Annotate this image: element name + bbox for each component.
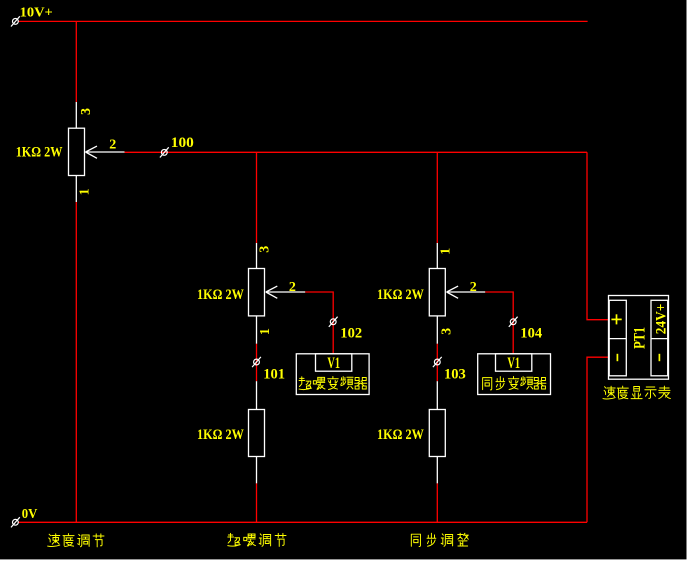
meter PT1 left terminal block — [609, 300, 626, 376]
wire RP1 pin1 down to 0V rail — [75, 202, 77, 522]
svg-text:PT1: PT1 — [632, 327, 649, 349]
svg-text:1KΩ 2W: 1KΩ 2W — [16, 145, 63, 161]
meter PT1 right terminal block — [651, 300, 668, 376]
resistor R2 — [249, 381, 265, 483]
resistor R3 — [429, 381, 445, 483]
potentiometer RP3 (sync) — [429, 243, 485, 344]
wire RP3 pin3 to node 103 to resistor R3 — [436, 344, 438, 381]
svg-text:1: 1 — [438, 248, 453, 255]
wire R2 to 0V rail — [256, 483, 258, 522]
wire 100 line down to RP2 pin 3 — [256, 152, 258, 243]
wire RP3 wiper to inverter V1 sync — [485, 292, 513, 354]
terminal right - label — [658, 354, 660, 361]
svg-text:2: 2 — [289, 280, 296, 295]
wire 100 line down right side — [587, 152, 609, 319]
U1 label 超喂变频器 — [299, 376, 367, 389]
terminal + label — [611, 314, 621, 324]
node 10V+ marker — [11, 16, 20, 26]
svg-text:V1: V1 — [507, 355, 520, 372]
svg-text:1KΩ 2W: 1KΩ 2W — [377, 287, 424, 303]
wire 100 line down to RP3 pin 1 — [436, 152, 438, 243]
potentiometer RP2 (overfeed) — [249, 243, 306, 344]
svg-text:10V+: 10V+ — [20, 6, 53, 21]
svg-text:V1: V1 — [327, 355, 340, 372]
svg-text:102: 102 — [340, 326, 362, 342]
wire from 10V+ rail down to RP1 pin 3 — [75, 21, 77, 102]
svg-text:2: 2 — [109, 137, 116, 152]
svg-text:1KΩ 2W: 1KΩ 2W — [197, 287, 244, 303]
svg-text:0V: 0V — [22, 507, 38, 522]
svg-text:24V+: 24V+ — [653, 304, 669, 335]
meter label 速度显示表 — [603, 386, 670, 399]
node 102 marker — [329, 317, 338, 327]
caption 超喂调节 — [228, 533, 286, 546]
U2 label 同步变频器 — [483, 376, 546, 389]
node 103 marker — [433, 357, 442, 367]
inverter U1 overfeed box — [296, 354, 369, 395]
svg-text:101: 101 — [263, 367, 285, 383]
svg-text:3: 3 — [440, 328, 455, 335]
node 104 marker — [509, 317, 518, 327]
inverter U2 sync box — [478, 354, 551, 395]
svg-text:3: 3 — [79, 108, 94, 115]
svg-text:100: 100 — [171, 135, 194, 151]
svg-text:2: 2 — [470, 280, 477, 295]
wire node 100 line — [125, 151, 588, 153]
wire 0V bottom rail — [19, 521, 587, 523]
caption 速度调节 — [48, 534, 104, 547]
potentiometer RP1 (speed) — [69, 102, 125, 202]
wire R3 to 0V rail — [436, 483, 438, 522]
node 0V marker — [11, 517, 20, 527]
svg-text:1: 1 — [77, 188, 92, 195]
svg-text:1KΩ 2W: 1KΩ 2W — [197, 427, 244, 443]
caption 同步调整 — [411, 533, 468, 546]
svg-text:3: 3 — [258, 246, 273, 253]
wire meter minus to 0V rail — [587, 357, 609, 522]
wire RP2 wiper to inverter V1 — [305, 292, 333, 354]
meter PT1 outer box — [609, 296, 669, 380]
terminal - label — [616, 354, 618, 361]
svg-text:1: 1 — [258, 328, 273, 335]
wire RP2 pin1 to node 101 to resistor R2 — [256, 344, 258, 381]
svg-text:104: 104 — [520, 326, 542, 342]
svg-text:103: 103 — [444, 367, 466, 383]
wire 10V+ top rail — [19, 20, 588, 22]
svg-text:1KΩ 2W: 1KΩ 2W — [377, 427, 424, 443]
node 101 marker — [252, 357, 261, 367]
node 100 marker — [160, 147, 169, 157]
